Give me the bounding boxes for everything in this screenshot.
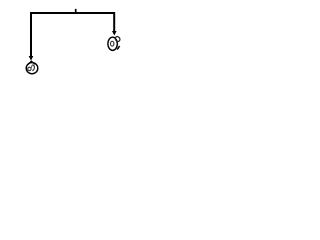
- lamp B2 (right component): [108, 36, 121, 51]
- arrowhead left: [29, 56, 34, 61]
- node tick on top wire: [75, 9, 77, 13]
- wire right vertical: [113, 12, 115, 31]
- arrowhead right: [112, 31, 117, 36]
- wire left vertical: [30, 12, 32, 56]
- lamp B1 (left component): [26, 61, 38, 74]
- wire top horizontal: [30, 12, 115, 14]
